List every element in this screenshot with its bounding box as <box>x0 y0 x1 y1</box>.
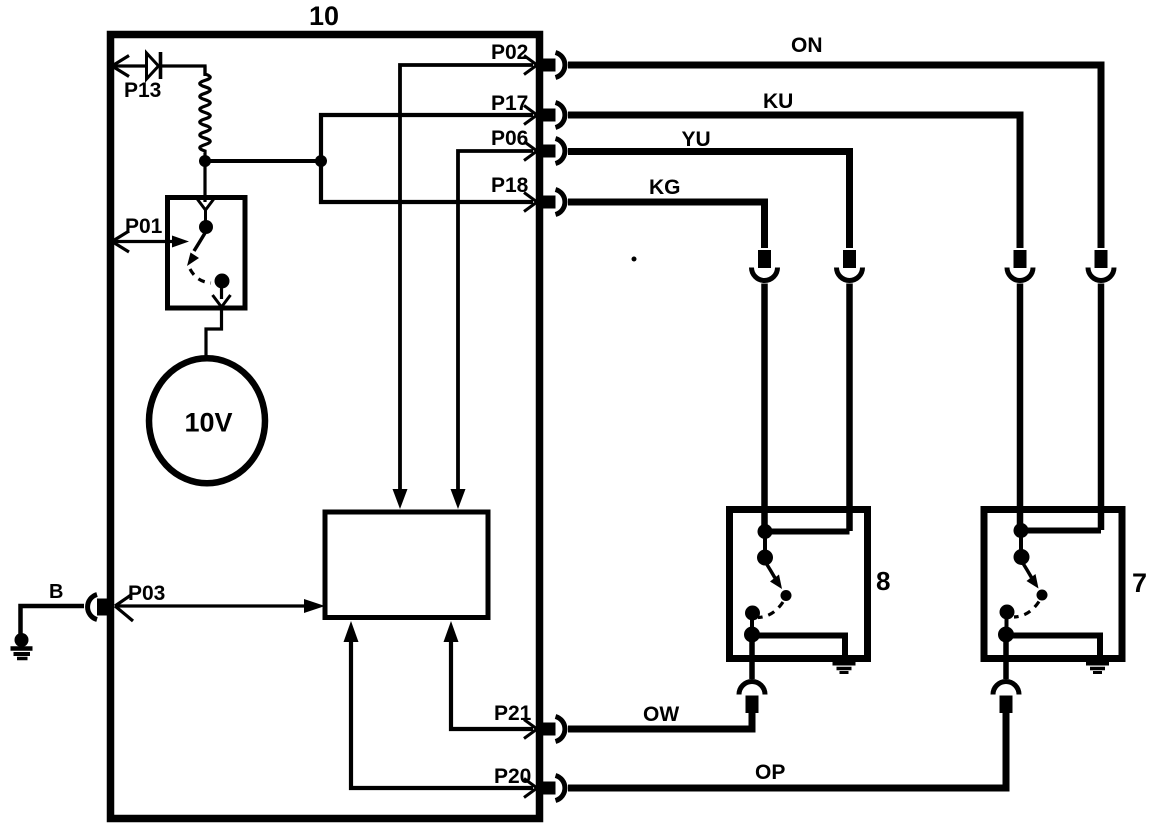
pin P18: connector arc <box>556 190 565 215</box>
pin P17: connector arc <box>556 103 565 128</box>
connector B/P03 square <box>97 599 111 616</box>
ground below switch 7 <box>1086 664 1109 673</box>
wire KU <box>568 115 1020 248</box>
svg-text:8: 8 <box>876 566 890 596</box>
switch 7 arm dot <box>1037 590 1048 601</box>
wire P01 <box>113 240 172 243</box>
connector OW below 8: square <box>746 696 759 714</box>
wire node to P18 <box>321 161 533 202</box>
switch 8 wire dot-to-dot <box>763 532 767 558</box>
pin P18: arrow at edge <box>524 193 537 212</box>
svg-text:P17: P17 <box>491 92 528 115</box>
control unit box 10 (outline) <box>111 35 540 819</box>
switch 7 arm <box>1023 563 1032 578</box>
wire KG to switch 8 <box>761 284 768 533</box>
svg-text:B: B <box>49 581 63 603</box>
svg-text:P06: P06 <box>491 127 528 150</box>
switch 7 contact dot 3 <box>1000 605 1015 620</box>
wire switch to lamp (jog) <box>206 308 222 358</box>
arrow out of switch S1 bottom <box>213 295 231 307</box>
ECU box (unlabeled) <box>325 512 488 618</box>
connector ON inline: arc <box>1088 268 1114 281</box>
wire node down to switch S1 <box>203 161 206 202</box>
connector OP below 7: arc <box>993 682 1019 695</box>
diode P13 <box>147 52 161 79</box>
pin P21: connector arc <box>556 717 565 742</box>
arrow P02 into ECU top <box>393 489 408 509</box>
switch 7 internal bottom link to ground <box>1006 636 1100 659</box>
connector KG inline: arc <box>752 268 778 281</box>
pin P20: square <box>541 782 556 795</box>
switch S1 contact top dot <box>199 220 213 234</box>
svg-text:7: 7 <box>1132 568 1147 598</box>
switch 7 internal top link <box>1021 528 1101 534</box>
connector OW below 8: arc <box>739 682 765 695</box>
arrow P03 (left, at box edge) <box>115 595 133 621</box>
arrow P20 into ECU bottom <box>344 621 359 642</box>
switch 7 arm arrowhead <box>1027 574 1039 589</box>
svg-text:ON: ON <box>791 34 823 57</box>
pin P17: arrow at edge <box>524 106 537 125</box>
pin P17: square <box>541 109 556 122</box>
connector KG inline: square <box>758 250 771 268</box>
wire B <box>21 606 85 636</box>
pin P06: arrow at edge <box>524 142 537 161</box>
arrow P03 into ECU (solid) <box>304 599 325 613</box>
svg-text:10: 10 <box>309 1 339 31</box>
switch 8 contact dot top <box>758 524 773 539</box>
pin P06: square <box>541 145 556 158</box>
svg-text:YU: YU <box>682 128 711 151</box>
pin P20: connector arc <box>556 776 565 801</box>
pin P21: square <box>541 723 556 736</box>
pin P02: square <box>541 59 556 72</box>
arrow P06 into ECU top <box>451 489 466 509</box>
pin P02: arrow at edge <box>524 56 537 75</box>
wire P06 (from ECU up to edge) <box>458 151 533 491</box>
pin P18: square <box>541 196 556 209</box>
switch 7 dashed arc <box>1014 602 1039 618</box>
switch 8 arm arrowhead <box>770 575 782 590</box>
arrow into switch S1 top <box>197 198 215 210</box>
pin P20: arrow at edge <box>524 779 537 798</box>
svg-text:P02: P02 <box>491 41 528 64</box>
connector KU inline: square <box>1014 250 1027 268</box>
wire switch 8 exit down <box>749 640 755 679</box>
wire YU <box>568 152 850 249</box>
svg-text:P18: P18 <box>491 174 529 197</box>
svg-text:KU: KU <box>763 90 793 113</box>
node junction dot right <box>315 155 327 167</box>
wire arrow-to-contact stub <box>204 208 207 221</box>
arrow P01 into switch (solid) <box>172 236 189 248</box>
wire diode to resistor corner <box>162 66 205 76</box>
svg-text:10V: 10V <box>185 408 233 438</box>
switch 8 dashed arc <box>758 602 783 618</box>
switch 7 contact dot 4 <box>998 627 1014 643</box>
arrow P01 (left, at box edge) <box>112 231 129 252</box>
stray dot <box>632 257 637 262</box>
pin P21: arrow at edge <box>524 720 537 739</box>
switch 8 arm <box>766 563 775 578</box>
svg-text:P20: P20 <box>494 765 531 788</box>
switch box 8 <box>730 510 868 659</box>
lamp 10V circle <box>149 358 265 483</box>
wire node to P17 <box>321 115 533 161</box>
wire P03 to ECU <box>116 604 306 607</box>
connector OP below 7: square <box>1000 696 1013 714</box>
pin P06: connector arc <box>556 139 565 164</box>
connector ON inline: square <box>1095 250 1108 268</box>
switch 8 contact dot 4 <box>744 627 760 643</box>
switch S1 box (ignition switch) <box>168 198 246 309</box>
wire switch 7 exit down <box>1003 640 1009 679</box>
wire OW <box>568 712 752 729</box>
switch 8 contact dot 2 <box>757 550 773 566</box>
switch 7 wire dot-to-dot <box>1019 531 1023 558</box>
switch S1 arm <box>194 233 205 251</box>
svg-text:P01: P01 <box>125 215 163 238</box>
svg-text:P13: P13 <box>124 79 161 102</box>
wire OP <box>568 712 1006 788</box>
wire P13 horizontal <box>113 64 146 67</box>
resistor R1 <box>200 66 211 157</box>
arrow P21 into ECU bottom <box>444 621 459 642</box>
switch S1 contact bottom dot <box>215 274 230 289</box>
switch 8 contact dot 3 <box>745 606 760 621</box>
wire YU to switch 8 <box>846 284 853 532</box>
connector YU inline: arc <box>837 268 863 281</box>
switch S1 dashed arc <box>190 269 211 283</box>
switch 8 wire dot3-dot4 <box>750 613 754 634</box>
wire S1 bottom dot down <box>220 287 223 299</box>
node junction dot left <box>199 155 211 167</box>
switch 8 arm dot <box>781 590 792 601</box>
switch 7 contact dot 2 <box>1014 549 1030 565</box>
switch 8 internal top link <box>765 529 850 535</box>
wire P20 (ECU bottom to edge) <box>351 640 533 788</box>
wire KG <box>568 202 765 248</box>
ground below switch 8 <box>833 664 856 673</box>
connector B/P03 arc <box>88 595 97 620</box>
ground B <box>11 633 33 659</box>
pin P02: connector arc <box>556 53 565 78</box>
switch 7 contact dot top <box>1014 523 1029 538</box>
wire junction horizontal <box>205 159 321 163</box>
connector YU inline: square <box>843 250 856 268</box>
arrow P13 (left, at box edge) <box>112 56 129 77</box>
wire ON <box>568 65 1101 248</box>
svg-text:KG: KG <box>649 176 681 199</box>
wire P02 (from ECU up to edge) <box>400 65 533 491</box>
wire KU to switch 7 <box>1017 284 1024 532</box>
svg-text:P03: P03 <box>128 582 165 605</box>
wire ON to switch 7 <box>1098 284 1105 531</box>
switch S1 arm arrowhead <box>187 253 199 267</box>
svg-text:OP: OP <box>755 761 785 784</box>
switch box 7 <box>984 510 1122 659</box>
connector KU inline: arc <box>1007 268 1033 281</box>
svg-text:OW: OW <box>643 703 679 726</box>
switch 8 internal bottom link to ground <box>752 636 845 659</box>
wire P21 (ECU bottom to edge) <box>451 640 533 729</box>
switch 7 wire dot3-dot4 <box>1005 612 1009 634</box>
